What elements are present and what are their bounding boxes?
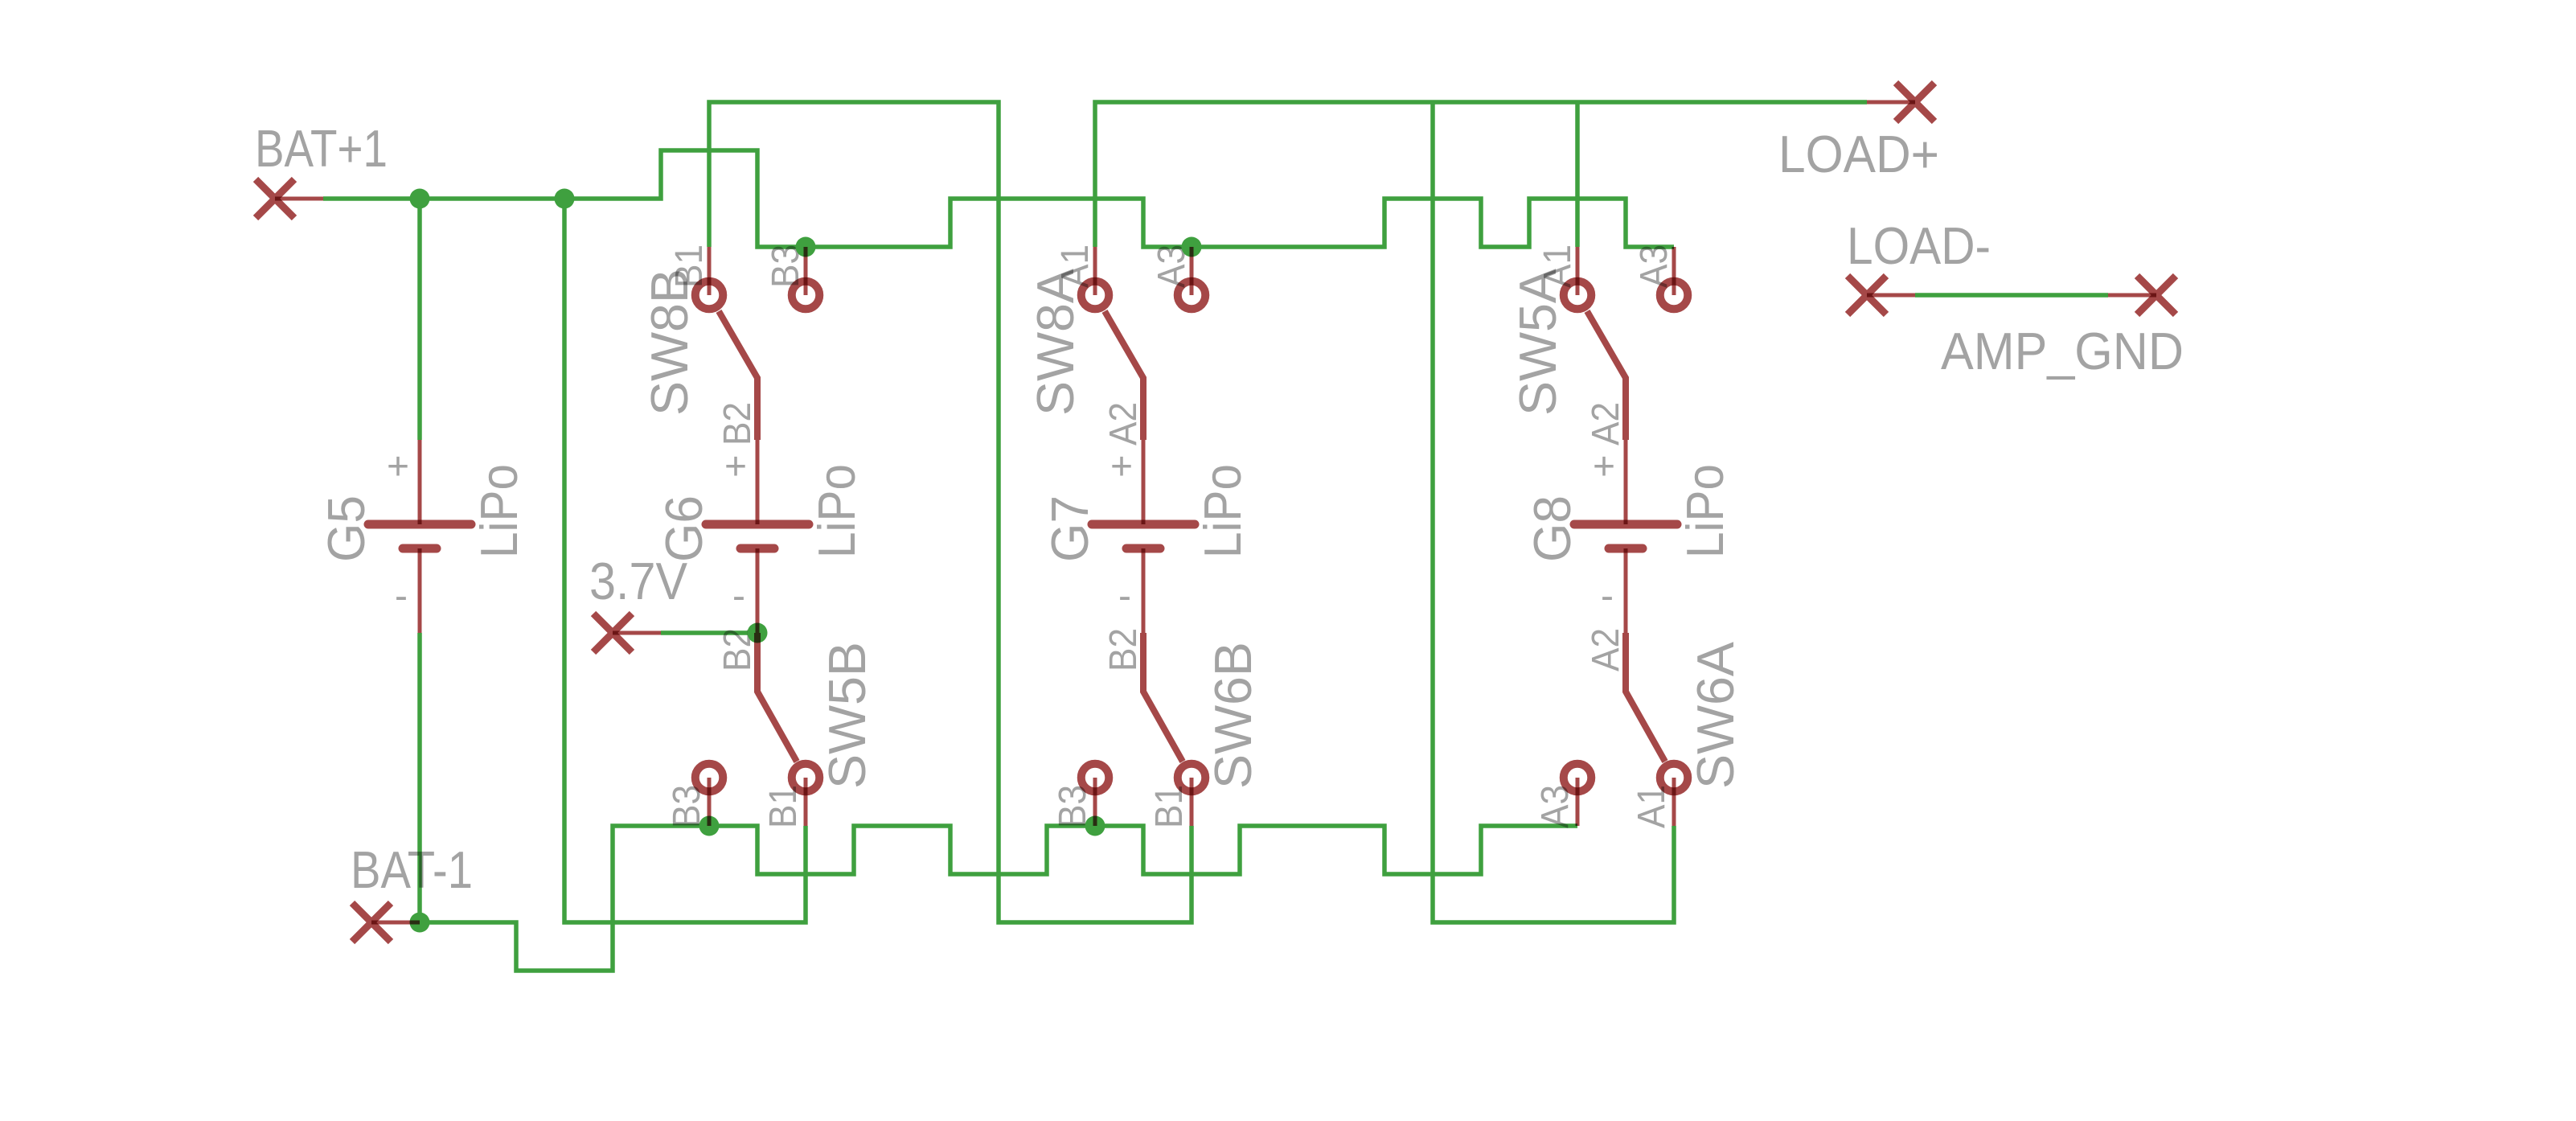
svg-text:A2: A2 — [1585, 628, 1627, 671]
pin stub LOAD+ — [1867, 101, 1915, 105]
wire net BAT+ branch down to SW5B.B1 — [564, 199, 806, 922]
switch SW6B contact ring B1 — [1178, 764, 1206, 792]
switch SW8A contact ring A3 — [1178, 281, 1206, 310]
switch SW8A blade — [1105, 311, 1143, 440]
switch SW8B blade — [719, 311, 757, 440]
svg-text:SW6A: SW6A — [1686, 641, 1745, 789]
switch SW8A pin A3 stub — [1190, 247, 1194, 295]
battery G6 negative pin — [756, 548, 760, 633]
switch SW8B contact ring B1 — [695, 281, 724, 310]
junction BAT+ at down branch — [555, 189, 575, 209]
battery G8 short plate — [1609, 544, 1643, 553]
switch SW6A pin A3 stub — [1576, 778, 1580, 826]
pin marker X 3.7V — [593, 614, 632, 652]
battery G5 short plate — [403, 544, 437, 553]
svg-text:+: + — [1593, 446, 1615, 488]
junction SW8A.A3 — [1182, 237, 1202, 257]
svg-text:-: - — [1118, 575, 1131, 618]
switch SW8B pin B3 stub — [804, 247, 808, 295]
switch SW8B contact ring B3 — [792, 281, 820, 310]
wire net BAT- from G5 negative pin down to BAT-1 — [417, 633, 422, 922]
switch SW5A pin A1 stub — [1576, 247, 1580, 295]
svg-text:-: - — [395, 575, 408, 618]
battery G8 positive pin — [1624, 440, 1628, 524]
switch SW8A contact ring A1 — [1081, 281, 1110, 310]
svg-text:B2: B2 — [1102, 628, 1145, 671]
pin marker X LOAD+ — [1896, 83, 1934, 121]
svg-text:LiPo: LiPo — [470, 464, 528, 558]
battery G7 positive pin — [1142, 440, 1146, 524]
switch SW6B pin B1 stub — [1190, 778, 1194, 826]
svg-text:G5: G5 — [317, 495, 375, 562]
svg-text:+: + — [1110, 446, 1133, 488]
switch SW5B pin B3 stub — [708, 778, 712, 826]
svg-text:LiPo: LiPo — [807, 464, 866, 558]
switch SW5A contact ring A1 — [1564, 281, 1592, 310]
svg-text:SW5A: SW5A — [1508, 268, 1567, 416]
battery G5 negative pin — [418, 548, 422, 633]
junction SW6B.B3 — [1085, 816, 1105, 836]
junction BAT-1 — [410, 913, 430, 933]
switch SW8B pin B1 stub — [708, 247, 712, 295]
switch SW6A contact ring A3 — [1564, 764, 1592, 792]
pin marker X BAT+1 — [256, 179, 294, 218]
svg-text:G6: G6 — [654, 495, 713, 562]
pin stub BAT+1 — [275, 197, 323, 201]
svg-text:-: - — [1601, 575, 1614, 618]
pin stub BAT-1 — [371, 921, 420, 925]
wire net BAT+ top weave from BAT+1 to SW8B.B3, SW8A.A3 and SW5A.A3 — [323, 150, 1674, 247]
svg-text:-: - — [732, 575, 745, 618]
svg-text:G8: G8 — [1523, 495, 1581, 562]
battery G5 long plate — [368, 520, 471, 529]
switch SW6B blade — [1143, 633, 1183, 762]
svg-text:BAT+1: BAT+1 — [255, 119, 388, 178]
svg-text:LOAD-: LOAD- — [1847, 216, 1991, 275]
svg-text:SW8B: SW8B — [640, 269, 699, 416]
wire net BAT+ branch to G5 positive pin — [417, 199, 422, 440]
switch SW5B contact ring B3 — [695, 764, 724, 792]
pin stub LOAD- left — [1867, 294, 1915, 298]
battery G6 long plate — [706, 520, 809, 529]
svg-text:A2: A2 — [1585, 402, 1627, 446]
switch SW5B contact ring B1 — [792, 764, 820, 792]
battery G8 negative pin — [1624, 548, 1628, 633]
battery G6 positive pin — [756, 440, 760, 524]
junction SW8B.B3 — [796, 237, 816, 257]
switch SW6B contact ring B3 — [1081, 764, 1110, 792]
switch SW6A contact ring A1 — [1660, 764, 1688, 792]
wire net SW8B.B1 to SW6B.B1 — [709, 102, 1192, 922]
svg-text:LOAD+: LOAD+ — [1778, 125, 1939, 183]
svg-text:B2: B2 — [716, 402, 759, 446]
battery G5 positive pin — [418, 440, 422, 524]
switch SW5A pin A3 stub — [1672, 247, 1676, 295]
wire net 3.7V to G6 negative / SW5B.B2 junction — [661, 630, 757, 635]
switch SW6B pin B3 stub — [1093, 778, 1097, 826]
pin stub 3.7V — [613, 631, 661, 635]
svg-text:LiPo: LiPo — [1193, 464, 1252, 558]
switch SW5A blade — [1587, 311, 1626, 440]
switch SW6A blade — [1626, 633, 1665, 762]
battery G7 long plate — [1092, 520, 1195, 529]
wire net BAT- bottom weave to SW5B.B3, SW6B.B3 and SW6A.A3 — [420, 826, 1577, 971]
switch SW5A contact ring A3 — [1660, 281, 1688, 310]
pin marker X BAT-1 — [352, 903, 391, 942]
svg-text:A2: A2 — [1102, 402, 1145, 446]
battery G7 negative pin — [1142, 548, 1146, 633]
svg-text:SW6B: SW6B — [1204, 642, 1262, 789]
battery G8 long plate — [1574, 520, 1677, 529]
wire net LOAD+ branch to SW5A.A1 — [1575, 102, 1580, 247]
svg-text:SW8A: SW8A — [1026, 268, 1085, 416]
wire net LOAD- to AMP_GND — [1915, 293, 2108, 298]
wire net LOAD+ branch down to SW6A.A1 — [1433, 102, 1674, 922]
svg-text:LiPo: LiPo — [1676, 464, 1734, 558]
wire net LOAD+ rail from SW8A.A1 to LOAD+ pin — [1095, 102, 1867, 247]
svg-text:G7: G7 — [1040, 495, 1099, 562]
svg-text:AMP_GND: AMP_GND — [1941, 322, 2184, 380]
svg-text:BAT-1: BAT-1 — [351, 840, 473, 899]
svg-text:SW5B: SW5B — [818, 642, 876, 789]
junction BAT+ at G5 positive — [410, 189, 430, 209]
pin marker X LOAD- — [1848, 276, 1886, 314]
switch SW5B pin B1 stub — [804, 778, 808, 826]
switch SW5B blade — [757, 633, 797, 762]
svg-text:+: + — [387, 446, 409, 488]
switch SW6A pin A1 stub — [1672, 778, 1676, 826]
battery G7 short plate — [1126, 544, 1160, 553]
pin marker X AMP_GND — [2137, 276, 2176, 314]
junction SW5B.B3 — [699, 816, 720, 836]
battery G6 short plate — [740, 544, 774, 553]
svg-text:+: + — [724, 446, 747, 488]
pin stub AMP_GND — [2108, 294, 2156, 298]
switch SW8A pin A1 stub — [1093, 247, 1097, 295]
junction 3.7V at G6 negative / SW5B.B2 — [748, 623, 768, 643]
